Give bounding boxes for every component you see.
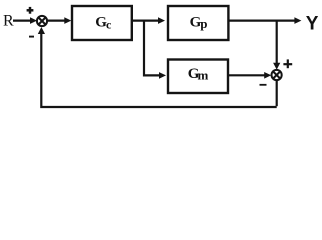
wire Gm to summer 2 <box>228 74 266 76</box>
plus sign at summer 2 <box>283 59 292 68</box>
arrowhead down into summer 2 <box>273 63 280 70</box>
wire branch drop to Gm <box>144 21 159 76</box>
wire Y branch down to summer 2 <box>276 21 278 64</box>
arrowhead into summer 2 from Gm <box>264 72 271 79</box>
wire Gp to Y <box>228 20 296 22</box>
svg-text:R: R <box>3 13 14 30</box>
wire Gc to Gp <box>131 20 159 22</box>
svg-text:m: m <box>198 68 209 83</box>
block Gm <box>168 60 228 94</box>
arrowhead up into summer 1 from feedback <box>38 27 45 34</box>
minus sign at summer 2 <box>260 84 267 86</box>
arrowhead into Gm <box>159 72 166 79</box>
arrowhead into Gp <box>158 17 165 24</box>
wire R to summer 1 <box>13 20 32 22</box>
arrowhead into summer 1 <box>30 17 37 24</box>
block Gc <box>72 6 132 40</box>
arrowhead into Y <box>294 17 301 24</box>
plus sign at summer 1 <box>27 7 34 14</box>
summer junction 1 <box>37 16 47 26</box>
block Gp <box>168 6 228 40</box>
svg-text:c: c <box>106 18 112 32</box>
wire summer2 down to bottom feedback <box>276 80 278 106</box>
wire bottom feedback run <box>41 34 276 107</box>
arrowhead into Gc <box>64 17 71 24</box>
minus sign at summer 1 <box>29 36 34 38</box>
summer junction 2 <box>272 70 282 80</box>
wire summer1 to Gc <box>47 20 66 22</box>
svg-text:Y: Y <box>306 14 319 35</box>
svg-text:p: p <box>200 16 207 31</box>
